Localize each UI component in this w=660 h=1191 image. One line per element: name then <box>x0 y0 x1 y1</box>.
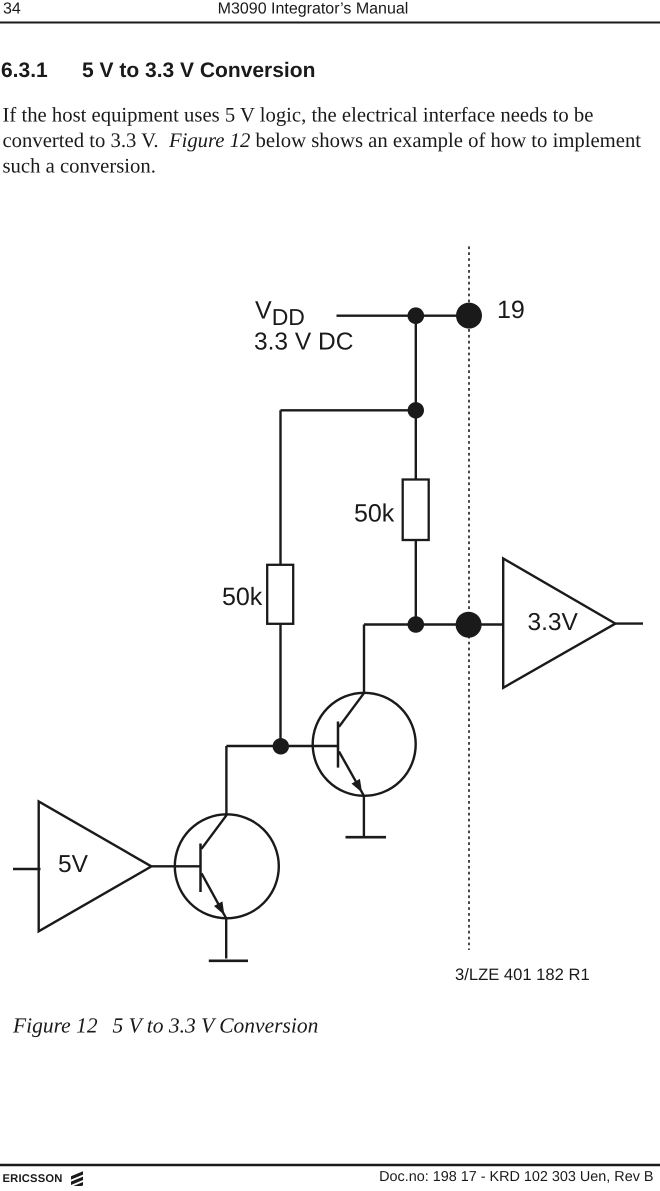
ground Q2 <box>346 836 387 839</box>
wire node A to Q1 collector <box>226 745 280 747</box>
svg-text:Figure 125 V to 3.3 V Conversi: Figure 125 V to 3.3 V Conversion <box>12 1014 318 1038</box>
wire Q2 collector vertical <box>363 625 365 694</box>
body paragraph <box>3 105 642 178</box>
footer rule <box>0 1164 660 1166</box>
transistor Q2 collector diagonal <box>339 693 364 727</box>
wire Q1 collector vertical <box>225 746 227 815</box>
transistor Q1 circle <box>175 814 279 918</box>
header rule <box>0 22 660 24</box>
svg-text:converted to 3.3 V. Figure 12: converted to 3.3 V. Figure 12 below show… <box>3 130 642 152</box>
svg-text:50k: 50k <box>222 583 263 611</box>
buffer 5V triangle <box>39 802 152 932</box>
junction dot J3 <box>408 616 425 633</box>
wire left branch vertical upper <box>279 410 281 565</box>
resistor R2 body <box>403 480 429 541</box>
wire horizontal J2 to left branch <box>281 409 416 411</box>
svg-text:ERICSSON: ERICSSON <box>3 1173 63 1185</box>
wire R2 bottom to output row <box>415 540 417 625</box>
wire R1 bottom to node A <box>279 624 281 746</box>
transistor Q1 emitter diagonal with arrow <box>202 873 227 918</box>
wire 3.3V output <box>615 622 643 624</box>
svg-text:3/LZE 401 182 R1: 3/LZE 401 182 R1 <box>455 965 590 984</box>
wire Q1 emitter vertical <box>225 918 227 959</box>
input stub 5V <box>13 868 41 870</box>
wire Q1 base <box>151 865 200 867</box>
svg-text:Doc.no: 198 17 - KRD 102 303 U: Doc.no: 198 17 - KRD 102 303 Uen, Rev B <box>379 1169 653 1185</box>
wire Q2 base <box>281 745 338 747</box>
ground Q1 <box>209 959 248 962</box>
junction dot J2 <box>408 402 424 418</box>
svg-text:such a conversion.: such a conversion. <box>3 156 156 178</box>
transistor Q1 base bar <box>199 844 202 893</box>
wire vertical from J1 to resistor R2 <box>415 316 417 480</box>
terminal dot node 19 <box>456 303 482 329</box>
svg-text:M3090 Integrator’s Manual: M3090 Integrator’s Manual <box>218 1 409 18</box>
svg-text:34: 34 <box>3 1 21 18</box>
Ericsson logo <box>71 1171 83 1190</box>
wire Q2 emitter vertical <box>363 796 365 837</box>
svg-text:5V: 5V <box>58 851 89 878</box>
svg-text:If the host equipment uses 5 V: If the host equipment uses 5 V logic, th… <box>3 105 594 127</box>
transistor Q2 circle <box>313 693 416 796</box>
svg-text:19: 19 <box>497 296 525 324</box>
svg-text:3.3 V DC: 3.3 V DC <box>254 329 353 356</box>
transistor Q2 base bar <box>337 722 340 768</box>
transistor Q1 collector diagonal <box>202 815 227 849</box>
interface boundary dotted line <box>468 246 470 950</box>
wire output row horizontal <box>364 623 503 625</box>
junction dot J1 <box>408 307 425 324</box>
terminal dot on boundary <box>456 612 482 638</box>
wire VDD horizontal <box>337 315 470 317</box>
buffer 3.3V triangle <box>503 559 615 688</box>
transistor Q2 emitter diagonal with arrow <box>339 752 364 796</box>
svg-text:3.3V: 3.3V <box>528 609 579 636</box>
svg-text:50k: 50k <box>354 500 395 528</box>
junction dot node A <box>273 738 289 754</box>
resistor R1 body <box>267 565 293 624</box>
